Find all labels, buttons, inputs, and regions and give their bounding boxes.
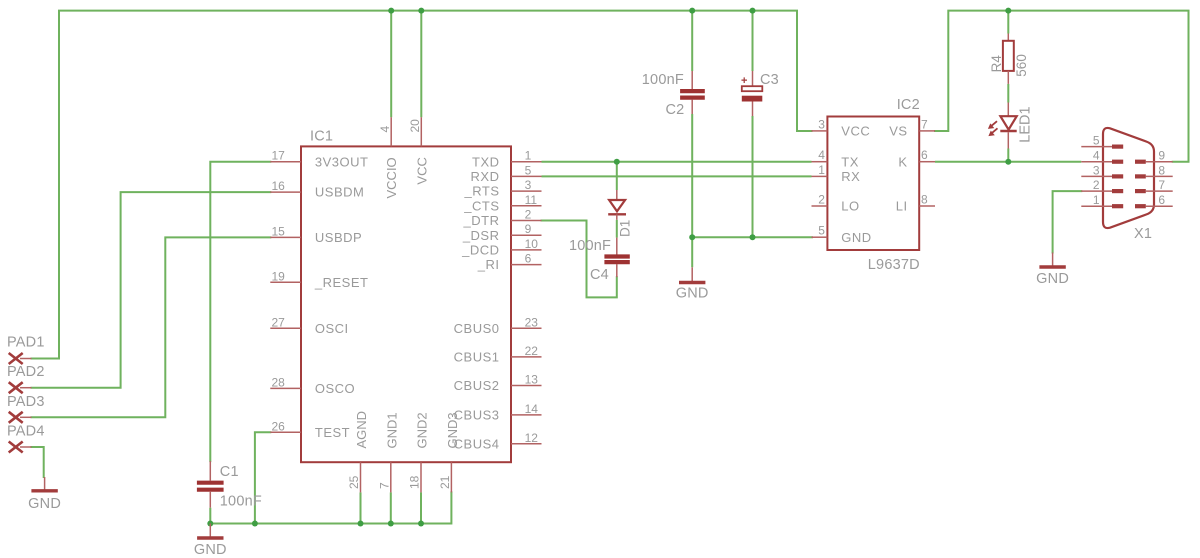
svg-text:8: 8 (1158, 163, 1165, 177)
IC2 body outline (827, 117, 919, 251)
svg-text:VS: VS (889, 124, 907, 139)
X1 pin 3 (1081, 163, 1123, 177)
IC1 pin 11 _CTS (463, 193, 541, 214)
wire R4 to LED1 (1007, 84, 1009, 103)
svg-text:13: 13 (525, 373, 539, 387)
svg-text:IC2: IC2 (897, 97, 920, 113)
svg-text:VCC: VCC (414, 157, 429, 184)
junction VCC rail (418, 8, 424, 14)
D1 reference label (618, 220, 633, 237)
svg-text:PAD2: PAD2 (7, 364, 45, 380)
IC1 pin 7 GND1 (377, 412, 399, 492)
svg-text:6: 6 (525, 252, 532, 266)
svg-text:RXD: RXD (471, 169, 500, 184)
LED1 emission arrows (988, 121, 998, 136)
wire PAD4 to GND (32, 447, 44, 477)
IC1 reference label (310, 129, 333, 145)
wire VS net: IC2 pin 7 up over to X1 pin 9 (935, 11, 1189, 162)
IC1 pin 27 OSCI (270, 315, 348, 336)
svg-text:18: 18 (408, 475, 422, 489)
connector X1 body (1103, 128, 1154, 228)
R4 reference label (989, 55, 1004, 73)
svg-text:11: 11 (525, 193, 538, 207)
IC2 pin 6 K (898, 148, 935, 169)
svg-text:23: 23 (525, 315, 539, 329)
wire C2 bottom drop to GND net (691, 114, 693, 267)
svg-text:X1: X1 (1134, 226, 1152, 242)
ground under C1 (194, 524, 227, 558)
svg-text:20: 20 (408, 119, 422, 133)
svg-text:2: 2 (1093, 178, 1100, 192)
IC1 pin 22 CBUS1 (454, 344, 542, 365)
IC1 pin 10 _DCD (461, 237, 541, 258)
svg-text:LED1: LED1 (1018, 106, 1034, 142)
svg-text:15: 15 (272, 224, 286, 238)
svg-text:16: 16 (272, 179, 286, 193)
svg-text:25: 25 (347, 475, 361, 489)
IC1 pin 21 GND3 (438, 412, 460, 492)
svg-text:USBDP: USBDP (315, 230, 362, 245)
svg-text:IC1: IC1 (310, 129, 333, 145)
svg-text:GND1: GND1 (384, 412, 399, 448)
svg-text:C1: C1 (220, 464, 239, 480)
ground under PAD4 (28, 477, 61, 512)
junction GND1 bus (388, 521, 394, 527)
svg-text:6: 6 (921, 148, 928, 162)
svg-text:RX: RX (841, 169, 860, 184)
svg-text:D1: D1 (618, 220, 633, 237)
X1 pin 8 (1135, 163, 1173, 177)
junction C3 GND (750, 234, 756, 240)
svg-text:TXD: TXD (472, 154, 500, 169)
svg-text:L9637D: L9637D (868, 257, 920, 273)
IC2 pin 4 TX (812, 148, 859, 169)
svg-text:5: 5 (525, 163, 532, 177)
wire C3 bottom drop (752, 116, 754, 237)
svg-text:CBUS2: CBUS2 (454, 378, 500, 393)
IC1 pin 18 GND2 (408, 412, 430, 492)
LED LED1 (1000, 103, 1016, 149)
svg-text:_DSR: _DSR (462, 228, 500, 243)
C4 value 100nF (569, 238, 611, 254)
svg-text:GND: GND (28, 496, 61, 512)
svg-text:OSCI: OSCI (315, 321, 349, 336)
IC2 pin 7 VS (889, 117, 935, 138)
svg-text:_RI: _RI (477, 257, 500, 272)
wire C1 bottom to bus (209, 508, 211, 524)
svg-text:AGND: AGND (354, 411, 369, 449)
svg-text:100nF: 100nF (569, 238, 611, 254)
wire VCCIO drop to IC1 pin 4 (390, 11, 392, 118)
svg-text:14: 14 (525, 402, 539, 416)
svg-text:GND: GND (841, 230, 871, 245)
X1 pin 6 (1135, 193, 1173, 207)
wire GND2 drop (420, 492, 422, 523)
svg-text:_DTR: _DTR (463, 213, 500, 228)
IC1 pin 20 VCC (408, 117, 429, 184)
IC1 pin 13 CBUS2 (454, 373, 542, 394)
C2 reference label (666, 102, 685, 118)
svg-text:100nF: 100nF (220, 494, 262, 510)
IC2 pin 2 LO (812, 193, 860, 214)
pad PAD4 (7, 423, 45, 452)
pad PAD1 (7, 334, 45, 364)
svg-text:CBUS1: CBUS1 (454, 350, 500, 365)
IC2 pin 8 LI (896, 193, 935, 214)
connector X1 label (1134, 226, 1152, 242)
svg-text:_DCD: _DCD (461, 243, 499, 258)
svg-text:100nF: 100nF (642, 72, 684, 88)
wire USBDP net: PAD3 to IC1 pin 15 (32, 237, 271, 417)
junction TEST bus (252, 521, 258, 527)
svg-text:5: 5 (818, 224, 825, 238)
svg-text:K: K (898, 154, 907, 169)
svg-text:8: 8 (921, 193, 928, 207)
svg-text:27: 27 (272, 315, 286, 329)
IC1 pin 26 TEST (270, 419, 350, 440)
svg-text:C4: C4 (590, 267, 609, 283)
capacitor C1 (197, 461, 224, 508)
junction C3 rail (750, 8, 756, 14)
svg-text:19: 19 (272, 269, 286, 283)
IC1 pin 3 _RTS (464, 178, 542, 199)
svg-text:_CTS: _CTS (463, 198, 499, 213)
svg-text:CBUS3: CBUS3 (454, 408, 500, 423)
junction C2 rail (689, 8, 695, 14)
svg-text:PAD1: PAD1 (7, 334, 45, 350)
wire K net: IC2 pin 6 to X1 pin 4 (935, 161, 1081, 163)
svg-text:6: 6 (1158, 193, 1165, 207)
diode D1 (608, 190, 626, 220)
IC1 pin 25 AGND (347, 411, 369, 492)
svg-text:560: 560 (1014, 54, 1029, 77)
wire DTR net: IC1 pin 2 loop to C4 bottom (542, 221, 617, 298)
svg-text:7: 7 (1158, 178, 1165, 192)
wire D1 to C4 (616, 220, 618, 238)
svg-text:C2: C2 (666, 102, 685, 118)
wire GND1 drop (390, 492, 392, 523)
svg-text:5: 5 (1093, 134, 1100, 148)
wire AGND drop (360, 492, 362, 523)
junction LED1 on K net (1005, 159, 1011, 165)
svg-text:OSCO: OSCO (315, 381, 355, 396)
svg-text:PAD3: PAD3 (7, 394, 45, 410)
svg-text:10: 10 (525, 237, 539, 251)
svg-text:4: 4 (818, 148, 825, 162)
svg-text:3: 3 (525, 178, 532, 192)
junction D1 on TXD (614, 159, 620, 165)
IC1 pin 17 3V3OUT (270, 149, 368, 170)
svg-text:USBDM: USBDM (315, 185, 364, 200)
svg-text:LO: LO (841, 199, 859, 214)
IC1 pin 19 _RESET (270, 269, 368, 290)
svg-text:VCCIO: VCCIO (384, 157, 399, 198)
wire C2 top drop (691, 11, 693, 71)
junction R4 rail (1005, 8, 1011, 14)
svg-text:21: 21 (438, 475, 452, 489)
junction VCCIO rail (388, 8, 394, 14)
svg-text:_RESET: _RESET (314, 275, 369, 290)
svg-text:PAD4: PAD4 (7, 423, 45, 439)
svg-text:12: 12 (525, 431, 539, 445)
IC1 pin 15 USBDP (270, 224, 362, 245)
X1 pin 1 (1081, 193, 1123, 207)
svg-text:7: 7 (921, 117, 928, 131)
IC1 pin 12 CBUS4 (454, 431, 542, 452)
IC2 pin 5 GND (812, 224, 872, 245)
wire ground bus (210, 492, 451, 523)
svg-text:GND3: GND3 (445, 412, 460, 448)
wire LED1 to K net (1007, 149, 1009, 162)
svg-text:GND: GND (194, 542, 227, 558)
svg-text:VCC: VCC (841, 124, 870, 139)
IC1 pin 16 USBDM (270, 179, 364, 200)
svg-text:26: 26 (272, 419, 286, 433)
IC2 pin 3 VCC (812, 117, 871, 138)
C1 reference label (220, 464, 239, 480)
wire X1 pin 2 to GND (1053, 191, 1082, 252)
IC1 pin 6 _RI (477, 252, 542, 273)
svg-text:GND: GND (676, 286, 709, 302)
svg-text:3: 3 (1093, 163, 1100, 177)
C3 reference label (760, 72, 779, 88)
wire TEST net: IC1 pin 26 down to bus (255, 432, 270, 523)
svg-text:3: 3 (818, 117, 825, 131)
svg-text:7: 7 (377, 482, 391, 489)
junction GND2 bus (418, 521, 424, 527)
junction C2 GND (689, 234, 695, 240)
IC1 pin 9 _DSR (462, 222, 542, 243)
IC2 pin 1 RX (812, 163, 861, 184)
X1 pin 2 (1081, 178, 1123, 192)
pad PAD2 (7, 364, 45, 393)
svg-text:+: + (741, 75, 747, 87)
svg-text:1: 1 (525, 149, 532, 163)
junction AGND bus (358, 521, 364, 527)
svg-text:R4: R4 (989, 55, 1004, 73)
C3 plus sign (741, 75, 747, 87)
C4 reference label (590, 267, 609, 283)
svg-text:17: 17 (272, 149, 286, 163)
IC1 pin 23 CBUS0 (454, 315, 542, 336)
capacitor C4 (604, 238, 629, 278)
svg-text:GND2: GND2 (415, 412, 430, 448)
svg-text:4: 4 (1093, 149, 1100, 163)
svg-text:TEST: TEST (315, 425, 350, 440)
svg-text:3V3OUT: 3V3OUT (315, 154, 369, 169)
X1 pin 4 (1081, 149, 1123, 163)
IC1 pin 28 OSCO (270, 375, 355, 396)
wire C3 top drop (752, 11, 754, 71)
svg-text:_RTS: _RTS (464, 184, 500, 199)
svg-text:4: 4 (378, 126, 392, 133)
R4 value 560 (1014, 54, 1029, 77)
C2 value 100nF (642, 72, 684, 88)
wire GND net to IC2 pin 5 (692, 236, 813, 238)
ground under C2 (676, 267, 709, 301)
wire VCC drop to IC1 pin 20 (420, 11, 422, 118)
svg-text:C3: C3 (760, 72, 779, 88)
wire USBDM net: PAD2 to IC1 pin 16 (32, 192, 271, 388)
IC1 pin 4 VCCIO (378, 117, 399, 198)
wire TXD drop to D1 (616, 162, 618, 190)
X1 pin 9 (1135, 149, 1173, 163)
svg-text:1: 1 (818, 163, 825, 177)
X1 pin 5 (1081, 134, 1123, 148)
wire VCC net: PAD1 to top rail to IC2 VCC (32, 11, 812, 359)
svg-text:2: 2 (818, 193, 825, 207)
IC1 pin 1 TXD (472, 149, 542, 170)
wire RXD net: IC1 pin 5 to IC2 RX (542, 175, 812, 177)
svg-text:9: 9 (1158, 149, 1165, 163)
svg-text:CBUS0: CBUS0 (454, 321, 500, 336)
IC2 reference label (897, 97, 920, 113)
svg-text:2: 2 (525, 208, 532, 222)
svg-text:TX: TX (841, 154, 859, 169)
IC2 value label L9637D (868, 257, 920, 273)
X1 pin 7 (1135, 178, 1173, 192)
IC1 pin 5 RXD (471, 163, 542, 184)
wire R4 top drop (1007, 11, 1009, 34)
svg-text:1: 1 (1093, 193, 1100, 207)
capacitor C3 polarized (742, 71, 763, 116)
svg-text:CBUS4: CBUS4 (454, 436, 500, 451)
wire TXD net: IC1 pin 1 to IC2 TX (542, 161, 812, 163)
C1 value 100nF (220, 494, 262, 510)
resistor R4 (1003, 34, 1014, 84)
IC1 body outline (301, 146, 511, 462)
junction C1 bus (207, 521, 213, 527)
IC1 pin 14 CBUS3 (454, 402, 542, 423)
LED1 reference label (1018, 106, 1034, 142)
svg-text:LI: LI (896, 199, 908, 214)
capacitor C2 (680, 71, 705, 114)
svg-text:9: 9 (525, 222, 532, 236)
IC1 pin 2 _DTR (463, 208, 542, 229)
svg-text:28: 28 (272, 375, 286, 389)
ground under X1 (1036, 253, 1069, 288)
svg-text:22: 22 (525, 344, 539, 358)
svg-text:GND: GND (1036, 271, 1069, 287)
wire 3V3OUT net: IC1 pin 17 down to C1 (210, 162, 270, 461)
pad PAD3 (7, 394, 45, 423)
